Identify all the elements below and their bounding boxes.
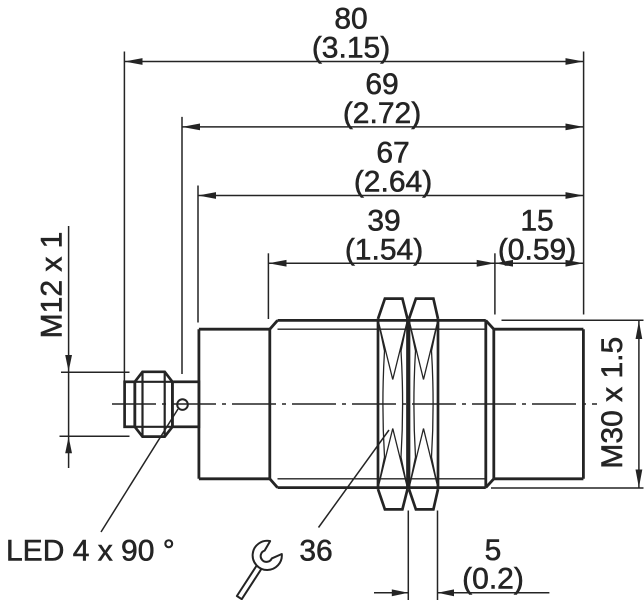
connector stem (172, 382, 199, 427)
wrench icon (220, 537, 286, 600)
M12 arrow down (65, 355, 72, 372)
extension line 39 left (267, 253, 269, 319)
5 dimension arrow left-pointing (438, 589, 455, 596)
connector end cap (125, 382, 135, 427)
nut 1 facet lines (378, 320, 408, 489)
dimension line 69 (182, 126, 584, 128)
chamfer to threaded barrel (270, 320, 278, 487)
nut 1 bottom cap (378, 489, 408, 509)
connector hex nut outline (135, 372, 173, 437)
dimension line 67 (198, 195, 584, 197)
dimension line 39 (268, 262, 495, 264)
LED leader line (101, 409, 178, 532)
svg-text:M30 x 1.5: M30 x 1.5 (596, 337, 629, 469)
M30 extension bottom (491, 487, 644, 489)
extension line 69 left (181, 117, 183, 374)
barrel rear section (199, 329, 270, 479)
M12 dimension line (68, 226, 70, 468)
threaded barrel crest outline (278, 320, 486, 487)
LED window circle (177, 399, 188, 410)
front section (494, 329, 584, 479)
connector hex facet lines (135, 381, 173, 383)
svg-text:(1.54): (1.54) (345, 233, 423, 266)
nut 2 bottom cap (409, 489, 438, 509)
M12 arrow up (65, 437, 72, 454)
5 dimension line left tail (374, 592, 408, 594)
svg-text:(3.15): (3.15) (312, 32, 390, 65)
M12 dimension extension bottom (60, 435, 130, 437)
dimension line 15 (495, 262, 584, 264)
5 dimension extension left (407, 511, 409, 600)
extension line 67 left (197, 186, 199, 323)
nut 2 top cap (409, 299, 438, 319)
M30 dimension line (638, 321, 640, 488)
nut 1 outline (378, 319, 408, 489)
svg-text:(0.59): (0.59) (498, 233, 576, 266)
5 dimension arrow right-pointing (392, 589, 409, 596)
svg-text:(2.64): (2.64) (354, 166, 432, 199)
nut 2 facet lines (409, 320, 438, 489)
5 dimension line right tail (438, 592, 550, 594)
nut 1 top cap (378, 299, 408, 319)
extension line right face (583, 52, 585, 315)
svg-text:36: 36 (299, 535, 332, 568)
wrench leader line (319, 430, 390, 528)
nut 2 outline (409, 319, 438, 489)
thread root lines (278, 329, 486, 479)
extension line 39 right (494, 253, 496, 314)
M12 dimension extension top (61, 371, 130, 373)
chamfer to front section (486, 320, 494, 487)
M30 extension top (502, 319, 644, 321)
5 dimension extension right (437, 511, 439, 600)
svg-text:M12 x 1: M12 x 1 (36, 232, 69, 339)
centerline (112, 403, 597, 405)
extension line 80 left (123, 52, 125, 381)
svg-text:(0.2): (0.2) (462, 563, 524, 596)
svg-text:LED 4 x 90 °: LED 4 x 90 ° (6, 535, 175, 568)
dimension line 80 (124, 61, 583, 63)
svg-text:(2.72): (2.72) (343, 97, 421, 130)
